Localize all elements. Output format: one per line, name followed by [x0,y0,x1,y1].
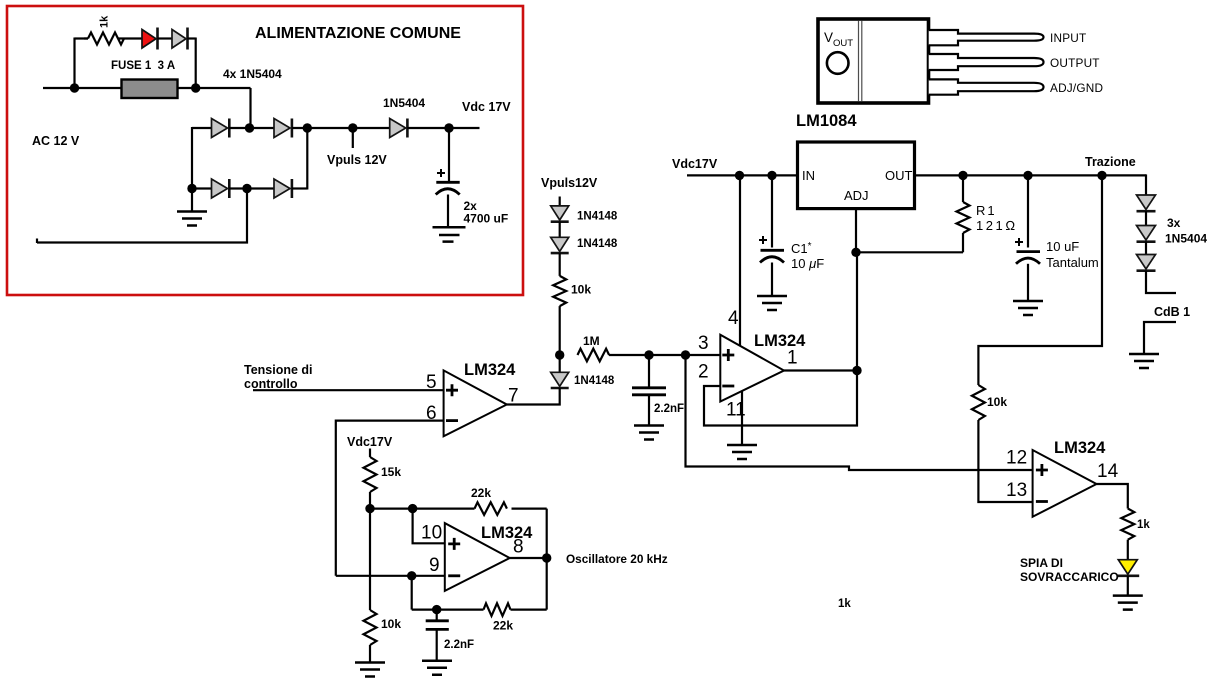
wire 1M to pin3 [609,354,720,356]
svg-text:4: 4 [728,308,739,329]
wire OUT to Trazione [915,174,1147,176]
wire Trazione down to 10k divider [978,175,1102,385]
wire D10 to CdB terminal [1146,271,1176,293]
diode bridge D7 bottom-right [274,179,290,198]
wire divider node to 10k [369,509,371,610]
svg-text:2.2nF: 2.2nF [444,639,474,651]
ground below CdB [1129,354,1159,368]
wire output pin 14 [1097,484,1128,509]
wire output pin 8 [510,557,547,559]
resistor R1 [957,175,970,252]
svg-text:Tantalum: Tantalum [1046,255,1099,270]
cathode bar D5 [406,119,409,138]
wire ADJ node to R1 bottom [856,251,963,253]
wire left vertical of 1k branch [75,38,89,89]
svg-text:1k: 1k [1137,519,1150,531]
junction dot 2.2nF osc node [432,605,441,614]
svg-text:ALIMENTAZIONE COMUNE: ALIMENTAZIONE COMUNE [255,25,461,42]
svg-text:CdB 1: CdB 1 [1154,305,1190,319]
svg-text:22k: 22k [493,619,513,633]
plus sign U1C [448,538,460,550]
wire D2 to right corner [188,37,196,39]
svg-text:4x 1N5404: 4x 1N5404 [223,67,282,81]
resistor 10k vertical [553,276,566,306]
pin lead OUTPUT [929,54,1044,70]
junction dot bridge bottom-left [187,184,196,193]
wire AC line left [43,87,122,89]
svg-text:Trazione: Trazione [1085,155,1136,169]
cathode bar D2 [186,28,189,50]
svg-text:22k: 22k [471,486,491,500]
svg-text:AC 12 V: AC 12 V [32,134,80,148]
wire D4 to Vpuls node [292,127,390,129]
wire D13 to op-amp output 7 [507,388,560,405]
svg-text:1N4148: 1N4148 [577,211,618,223]
diode D11 1N4148 [551,206,569,220]
pin lead INPUT [929,30,1044,45]
diode D2 [172,30,186,49]
pin lead ADJ/GND [929,79,1044,94]
wire bridge bottom-left [192,187,212,189]
svg-text:1N4148: 1N4148 [574,375,615,387]
wire Trazione to diode chain [1145,174,1147,195]
svg-text:4700 uF: 4700 uF [464,212,509,226]
wire Vpuls stub to D11 [559,197,561,206]
svg-text:Vpuls12V: Vpuls12V [541,176,598,190]
junction dot tantalum top [1023,171,1032,180]
svg-text:controllo: controllo [244,377,298,391]
wire control voltage to pin 5 [253,389,444,391]
cathode bar D7 [291,179,294,198]
wire 15k to divider node [369,492,371,509]
wire feedback loop pin2 [704,252,857,425]
wire CdB return terminal [1144,322,1176,354]
svg-text:7: 7 [508,386,519,407]
junction dot comparator branch [681,350,690,359]
svg-text:OUTPUT: OUTPUT [1050,56,1100,70]
op-amp U1A triangle pins 5/6/7 [444,370,507,436]
ground below 2.2nF oscillator [422,661,452,675]
junction dot 1M node [555,350,564,359]
svg-text:Oscillatore 20 kHz: Oscillatore 20 kHz [566,552,668,566]
svg-text:2: 2 [698,362,709,383]
wire resistor to LED [118,37,142,39]
wire 22k bottom to rail [511,608,547,610]
junction dot output node [852,366,861,375]
capacitor 10uF tantalum [1015,175,1040,301]
ground below 10k [355,663,385,677]
resistor 15k [364,457,377,492]
minus sign U1A [446,419,458,422]
wire ADJ down [855,209,857,253]
regulator LM1084 box [798,142,915,209]
diode D13 1N4148 [551,372,569,386]
svg-text:5: 5 [426,372,437,393]
node Vpuls 12V dot [348,123,357,132]
wire LED to ground [1127,576,1129,596]
diode D10 1N5404 [1137,255,1156,270]
junction dot divider node [365,504,374,513]
wire bottom rail left [412,608,484,610]
wire D11 to D12 [559,222,561,238]
wire Vdc stub to 15k [369,449,371,458]
resistor 1M horizontal [578,349,610,362]
wire 10k to pin 13 [978,420,1032,502]
cathode bar D11 [551,220,569,223]
diode D8 1N5404 [1137,195,1156,210]
svg-text:V: V [824,30,833,45]
wire D7 to right column [292,187,307,189]
svg-text:1k: 1k [838,598,851,610]
svg-text:3x: 3x [1167,216,1181,230]
ground below C1 [757,296,787,310]
svg-text:SOVRACCARICO: SOVRACCARICO [1020,570,1119,584]
wire bottom return line [37,189,247,244]
cathode bar D3 [228,119,231,138]
svg-text:SPIA DI: SPIA DI [1020,556,1063,570]
wire LED to diode [158,37,173,39]
svg-text:FUSE 1 3 A: FUSE 1 3 A [111,60,175,72]
svg-text:10k: 10k [987,395,1007,409]
svg-text:OUT: OUT [885,168,913,183]
op-amp U1B triangle pins 3/2/1 [720,335,784,402]
package marking circle [827,52,849,74]
wire bridge right column [306,128,308,190]
plus sign U1B [722,349,734,361]
svg-text:13: 13 [1006,480,1027,501]
op-amp U1D triangle pins 12/13/14 [1033,450,1097,517]
wire pin 11 to ground [741,391,743,446]
wire pin 10 branch [413,509,445,544]
cathode bar D9 [1137,240,1156,243]
wire corner down to bridge [249,88,251,128]
ground below tantalum [1013,301,1043,315]
node Vdc 17V dot [444,123,453,132]
svg-text:1N5404: 1N5404 [383,96,425,110]
svg-text:LM324: LM324 [481,524,533,542]
cathode bar D8 [1137,210,1156,213]
resistor 22k bottom [484,603,511,616]
wire pin 9 line [336,575,445,577]
svg-text:R1: R1 [976,203,997,218]
svg-text:10: 10 [421,523,442,544]
wire 1k to LED [1127,540,1129,560]
junction dot C1 branch [767,171,776,180]
ground below bridge [177,189,207,226]
minus sign U1C [448,574,460,577]
wire Vpuls stub [352,128,354,148]
svg-text:12: 12 [1006,448,1027,469]
svg-text:15k: 15k [381,465,401,479]
svg-text:INPUT: INPUT [1050,31,1086,45]
svg-text:IN: IN [802,168,815,183]
wire D6 to node [229,187,274,189]
wire D8 to D9 [1145,211,1147,226]
resistor 22k top [475,502,507,515]
wire pin4 vertical [739,175,741,346]
diode bridge D3 top-left [212,119,228,138]
wire pin 6 branch [336,421,444,576]
svg-text:10 uF: 10 uF [1046,239,1079,254]
wire bridge top-left [192,127,212,129]
wire D9 to D10 [1145,242,1147,255]
svg-text:2.2nF: 2.2nF [654,403,684,415]
wire D3 to node [229,127,274,129]
minus sign U1B [722,385,734,388]
svg-text:LM324: LM324 [754,332,806,350]
wire 10k to ground [369,645,371,663]
cathode bar D12 [551,252,569,255]
svg-text:10 μF: 10 μF [791,256,824,271]
svg-text:Tensione di: Tensione di [244,363,313,377]
svg-text:10k: 10k [381,617,401,631]
wire pin9 node down [411,576,413,610]
ground below LED [1113,596,1143,610]
svg-text:Vdc 17V: Vdc 17V [462,100,511,114]
cathode bar D13 [551,387,569,390]
cathode bar yellow LED [1117,574,1140,577]
cathode bar D10 [1137,269,1156,272]
resistor 10k oscillator [364,610,377,645]
junction dot oscillator output [542,553,551,562]
wire output pin1 [784,369,857,371]
capacitor 2.2nF oscillator [426,610,449,661]
LM1084 package body [818,19,929,103]
node Trazione dot [1097,171,1106,180]
resistor 10k right [972,385,985,420]
diode D5 1N5404 [390,119,406,138]
svg-text:1: 1 [787,348,798,369]
svg-text:ADJ: ADJ [844,188,869,203]
svg-text:121Ω: 121Ω [976,218,1018,233]
wire 22k to right rail [512,508,547,510]
junction dot bridge top-right [303,123,312,132]
LED yellow SPIA [1118,560,1137,575]
minus sign U1D [1036,500,1048,503]
junction dot pin9 node [407,571,416,580]
svg-text:OUT: OUT [833,38,853,49]
fuse FUSE1 body [122,80,178,99]
svg-text:LM1084: LM1084 [796,112,857,130]
cathode bar D4 [291,119,294,138]
svg-text:Vpuls 12V: Vpuls 12V [327,153,387,167]
wire divider node to 22k [370,508,475,510]
junction dot bridge bottom-center [242,184,251,193]
junction dot pin10 branch [408,504,417,513]
svg-text:1k: 1k [99,15,111,28]
package double line [859,21,862,101]
wire Vdc17V to regulator IN [687,174,798,176]
svg-text:9: 9 [429,555,440,576]
svg-text:1N4148: 1N4148 [577,238,618,250]
svg-text:14: 14 [1097,461,1119,482]
ground below pin 11 [727,445,757,459]
diode bridge D4 top-right [274,119,290,138]
svg-text:Vdc17V: Vdc17V [347,435,393,449]
ground below 2.2nF [634,426,664,440]
wire right feedback rail [546,509,548,610]
junction dot bridge top-center [245,123,254,132]
resistor 1k [1121,509,1134,540]
capacitor C1 [759,175,784,296]
plus sign U1D [1036,464,1048,476]
cathode bar of red LED [156,28,159,50]
diode D9 1N5404 [1137,226,1156,241]
wire node to comparator pin 12 [686,355,1033,470]
svg-text:3: 3 [698,333,709,354]
cathode bar D6 [228,179,231,198]
ground below 4700uF [433,227,466,241]
junction dot ADJ node [851,248,860,257]
junction dot R1 top [958,171,967,180]
op-amp U1C triangle pins 10/9/8 [445,523,510,591]
wire D12 to 10k [559,253,561,276]
wire 10k to 1M node [559,306,561,355]
svg-text:1M: 1M [583,334,600,348]
wire D5 to Vdc node [407,127,479,129]
junction dot pin4 branch [735,171,744,180]
wire left stub to resistor 1k [84,37,88,39]
junction dot left of fuse [70,83,79,92]
svg-text:LM324: LM324 [464,361,516,379]
svg-text:LM324: LM324 [1054,439,1106,457]
wire fuse to bridge corner [178,87,251,89]
junction dot 2.2nF node [644,350,653,359]
plus sign U1A [446,384,458,396]
wire bridge left column [191,127,193,189]
wire node to diode D13 [559,355,561,372]
svg-text:ADJ/GND: ADJ/GND [1050,81,1103,95]
svg-text:10k: 10k [571,283,591,297]
capacitor 2.2nF at pin3 [632,355,666,426]
svg-text:8: 8 [513,537,524,558]
diode D12 1N4148 [551,237,569,251]
LED red diode [142,30,156,49]
resistor 1k [88,33,124,45]
wire right vertical of LED branch [195,38,197,89]
svg-text:Vdc17V: Vdc17V [672,157,718,171]
capacitor 2x 4700uF [436,128,460,227]
red frame of ALIMENTAZIONE COMUNE block [7,6,523,295]
svg-text:1N5404: 1N5404 [1165,232,1207,246]
junction dot right of fuse [191,83,200,92]
diode bridge D6 bottom-left [212,179,228,198]
